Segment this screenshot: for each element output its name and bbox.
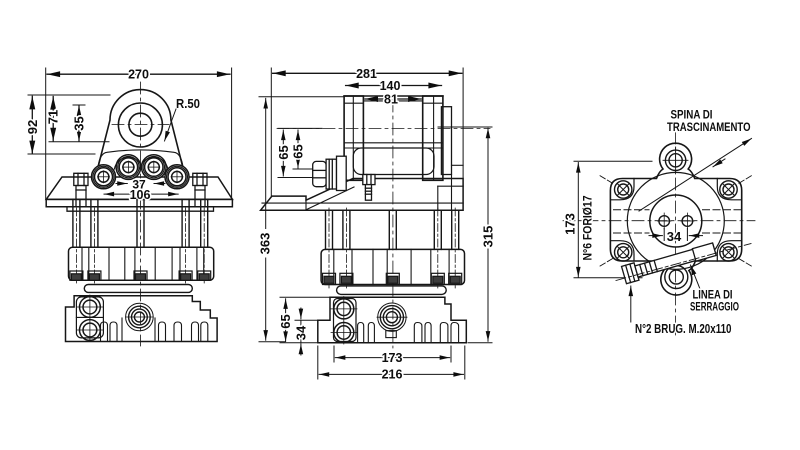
bottom body outline (66, 296, 218, 342)
dim 270 line (47, 73, 230, 75)
dim 81 line (365, 98, 421, 100)
triangle bracket (96, 90, 186, 177)
svg-text:65: 65 (291, 144, 306, 158)
mid port circle upper (334, 299, 354, 319)
dim 65b line (297, 130, 299, 168)
dim 173 ext top (574, 160, 652, 162)
dim 281 ext right (462, 68, 464, 178)
dim 173 ext bottom (574, 277, 642, 279)
slab inner lines (262, 165, 463, 210)
svg-text:65: 65 (278, 314, 293, 328)
dim 65a line (282, 130, 284, 176)
svg-text:34: 34 (667, 229, 682, 244)
bracket top edge (344, 95, 443, 97)
dim 173 line right view (577, 163, 579, 278)
slab outline (261, 179, 464, 211)
center port ticks (126, 316, 153, 318)
hex fitting (313, 156, 347, 190)
left bolt on plate (74, 173, 88, 207)
svg-text:173: 173 (563, 213, 578, 235)
svg-text:270: 270 (128, 68, 149, 82)
dim 363 ext top (259, 96, 344, 98)
dim texts overlay (380, 79, 401, 107)
middle block (321, 249, 464, 284)
dim 216 ext (317, 346, 319, 379)
dim 363 ext bottom (259, 341, 285, 343)
svg-text:140: 140 (380, 79, 401, 93)
bottom ear bolt (665, 266, 688, 289)
dim 315 ext top (438, 126, 492, 128)
svg-text:315: 315 (481, 226, 496, 248)
dim 92 line (31, 96, 33, 153)
vertical centerline (392, 100, 394, 348)
flange body with ears (610, 143, 741, 295)
corner bolt BR (720, 244, 737, 261)
right bolt on plate (193, 173, 207, 207)
svg-text:92: 92 (25, 120, 40, 134)
centerline vertical (140, 82, 142, 346)
diagonal bolt (622, 241, 717, 284)
svg-text:106: 106 (130, 188, 151, 202)
hidden spline lines (614, 210, 743, 233)
ext line y95 (28, 94, 110, 96)
dim 173 ext (333, 346, 335, 362)
flange centerline H (563, 220, 755, 222)
dim 315 ext bottom (468, 342, 492, 344)
ext baseline left (280, 342, 318, 344)
dim 140 line (346, 85, 442, 87)
port boss rect (76, 297, 103, 338)
bolt axis centerline (616, 244, 751, 281)
port base box (386, 331, 397, 338)
right side plate (441, 107, 451, 175)
svg-text:R.50: R.50 (176, 97, 200, 111)
block ribs (334, 249, 449, 284)
nut row circle 3 (140, 155, 168, 180)
LINEA leader (691, 265, 701, 289)
ext line y154 (28, 153, 95, 155)
stud centerlines (76, 208, 204, 284)
dim 270 ext right (231, 68, 233, 199)
port ticks (331, 297, 357, 345)
svg-text:363: 363 (257, 233, 272, 255)
svg-text:N°6 FORIØ17: N°6 FORIØ17 (583, 196, 595, 261)
top ear bolt (665, 150, 685, 170)
left port circle lower (80, 320, 101, 341)
svg-text:TRASCINAMENTO: TRASCINAMENTO (667, 120, 751, 134)
bolt-circle boss ring (627, 172, 724, 269)
dim 216 line (319, 373, 463, 375)
svg-text:81: 81 (384, 93, 398, 107)
corner bolt TL (615, 181, 632, 198)
port centerline ticks (77, 295, 103, 341)
corner boss BR (717, 241, 741, 261)
top ear bolt cross (663, 147, 688, 173)
corner boss TR (717, 179, 741, 200)
eye circle middle (118, 103, 162, 147)
block rib lines (82, 247, 204, 280)
bottom ribs mid view (358, 323, 459, 343)
flange plate top (46, 177, 232, 199)
nut row circle 4 (165, 165, 189, 189)
ext 65b (293, 168, 314, 170)
studs left view (73, 200, 208, 248)
SPINA leader (639, 139, 752, 212)
dim 173 line (335, 357, 449, 359)
corner diag ticks (599, 175, 753, 267)
middle block (69, 247, 214, 280)
center port mid view (378, 303, 406, 331)
svg-text:71: 71 (46, 110, 61, 124)
dim 363 line upper (265, 98, 267, 228)
vertical bolt (363, 175, 375, 201)
port panel (334, 299, 357, 342)
svg-text:65: 65 (276, 145, 291, 159)
stud nuts in block (70, 271, 211, 280)
dim 37 arrows (116, 183, 127, 185)
corner bolt BL (615, 244, 632, 261)
rounded bar (84, 285, 192, 293)
dim 35 line (78, 106, 80, 142)
ext 65c top (280, 296, 330, 298)
left post (344, 96, 363, 180)
eye hole (129, 113, 152, 136)
small hole right (682, 216, 693, 227)
stud centerlines (329, 208, 455, 288)
left port circle upper (80, 297, 101, 318)
corner bolt TR (720, 181, 737, 198)
ext tick y105 (73, 104, 85, 106)
dim 65c line (285, 299, 287, 342)
N2 BRUG leader (630, 286, 632, 322)
centerline horizontal eye (112, 124, 169, 126)
rounded bar (337, 286, 447, 295)
flange band (46, 199, 232, 206)
small hole left (659, 216, 670, 227)
corner boss BL (611, 241, 634, 261)
SPINA leader arrow mid (713, 159, 725, 167)
flange lip (67, 207, 214, 211)
horizontal centerline (277, 127, 490, 129)
ext line y141.7 (49, 141, 109, 143)
svg-text:35: 35 (72, 116, 87, 130)
center port (126, 303, 154, 331)
dim 363 line lower (265, 258, 267, 340)
bottom body outline (318, 297, 467, 342)
dim 34 arrows right view (649, 235, 662, 237)
boss curve over nuts (98, 150, 183, 167)
svg-text:N°2 BRUG. M.20x110: N°2 BRUG. M.20x110 (635, 322, 732, 336)
svg-text:281: 281 (356, 67, 377, 81)
center port ticks (377, 316, 407, 318)
ext centerline top (278, 127, 322, 129)
dim 34 arrows (300, 308, 302, 319)
dim 315 line lower (487, 249, 489, 341)
studs middle view (326, 210, 459, 249)
ext 34 (295, 319, 318, 321)
svg-text:173: 173 (382, 351, 403, 365)
R.50 leader (165, 109, 177, 141)
post horizontals (344, 101, 443, 148)
dim 281 ext left (270, 68, 272, 196)
dim 315 line upper (487, 128, 489, 224)
dim 106 line (104, 193, 178, 195)
nut row circle 1 (92, 165, 116, 189)
dim 270 ext left (45, 68, 47, 199)
nut row circle 2 (114, 155, 142, 180)
dim 71 line (52, 97, 54, 141)
center circle (650, 195, 702, 247)
svg-text:SERRAGGIO: SERRAGGIO (690, 300, 739, 314)
svg-text:34: 34 (293, 325, 308, 340)
right post (423, 96, 443, 180)
pin boss between posts (353, 148, 434, 175)
ext 65a (278, 177, 313, 179)
dim 34 ext ticks (663, 229, 665, 241)
corner boss TL (611, 179, 634, 200)
mid port circle lower (334, 323, 354, 343)
stud nuts in block (323, 273, 462, 284)
bottom ribs (101, 318, 208, 342)
svg-text:216: 216 (382, 368, 403, 382)
small hole ticks (658, 213, 695, 229)
dim 281 line (273, 72, 462, 74)
flange centerline V (675, 132, 677, 336)
